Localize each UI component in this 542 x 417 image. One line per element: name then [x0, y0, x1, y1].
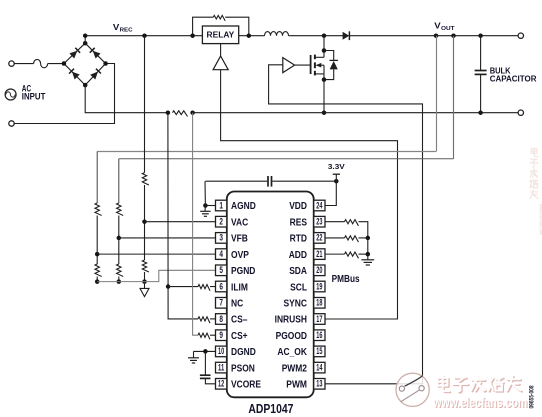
- svg-text:AC_OK: AC_OK: [277, 347, 307, 358]
- wire RES pin 23: [325, 221, 345, 223]
- capacitor C1 decoupling: [205, 176, 336, 187]
- svg-text:PSON: PSON: [231, 363, 255, 374]
- pin 24 VDD: [289, 200, 325, 212]
- svg-text:NC: NC: [231, 298, 244, 309]
- svg-text:PGND: PGND: [231, 266, 255, 277]
- pin 4 OVP: [216, 249, 250, 261]
- pin 13 PWM: [286, 379, 325, 391]
- svg-text:VDD: VDD: [289, 201, 307, 212]
- resistor R10 RES: [345, 220, 359, 226]
- wire OVP to pin 4: [97, 253, 215, 255]
- terminal VOUT-: [518, 110, 523, 115]
- wire OVP divider mid: [96, 216, 98, 265]
- node OVP pin tap: [95, 252, 100, 257]
- pin 1 AGND: [216, 200, 256, 212]
- svg-text:2: 2: [219, 217, 223, 227]
- wire ADD pin 21: [325, 253, 345, 255]
- pin 11 PSON: [216, 362, 255, 374]
- wire VFB divider mid: [118, 216, 120, 265]
- pin 17 INRUSH: [275, 314, 325, 326]
- resistor R1 VAC upper: [142, 173, 149, 185]
- svg-text:3.3V: 3.3V: [328, 162, 345, 171]
- node VOUT VFB tap: [451, 33, 456, 38]
- wire VFB divider bottom: [118, 277, 120, 282]
- svg-text:ADP1047: ADP1047: [248, 402, 293, 416]
- svg-text:INPUT: INPUT: [22, 92, 46, 102]
- buffer U3 gate driver: [283, 58, 295, 73]
- watermark text dianzifashaoyou: [437, 376, 521, 393]
- svg-text:4: 4: [219, 249, 223, 259]
- wire ADD to node: [359, 253, 368, 255]
- svg-text:16: 16: [316, 330, 322, 340]
- resistor R8 CS-: [198, 317, 210, 323]
- ground DGND: [188, 351, 199, 363]
- node DGND junction: [203, 349, 208, 354]
- wire CS+ sense line: [193, 113, 198, 336]
- wire PGND pin 5 path: [97, 270, 215, 281]
- terminal VOUT+: [518, 33, 523, 38]
- capacitor C2 VCORE: [200, 351, 216, 383]
- node ILIM tap: [166, 284, 171, 289]
- node VAC divider tap: [142, 33, 147, 38]
- svg-text:VFB: VFB: [231, 234, 248, 245]
- pin 9 CS+: [216, 330, 248, 342]
- svg-text:7: 7: [219, 298, 223, 308]
- wire return rail: [193, 112, 519, 114]
- resistor R4 OVP lower: [95, 264, 102, 276]
- node drain junction: [322, 48, 327, 53]
- wire OVP divider bottom: [96, 277, 98, 282]
- svg-text:SYNC: SYNC: [284, 298, 308, 309]
- svg-text:11: 11: [218, 362, 224, 372]
- svg-text:PWM2: PWM2: [282, 363, 308, 374]
- wire AC bottom to bridge: [14, 64, 115, 124]
- resistor R9 CS+: [198, 333, 210, 339]
- pin 20 SDA: [289, 265, 325, 277]
- svg-text:DGND: DGND: [231, 347, 256, 358]
- node bridge left: [62, 61, 67, 66]
- wire drain up: [323, 36, 325, 51]
- resistor R_bypass relay: [213, 15, 225, 20]
- node VREC tap: [83, 33, 88, 38]
- node AGND junction: [203, 203, 208, 208]
- pin 22 RTD: [290, 233, 325, 245]
- svg-text:3: 3: [219, 233, 223, 243]
- wire RES corner: [359, 222, 368, 260]
- svg-text:INRUSH: INRUSH: [275, 315, 307, 326]
- node MOSFET drain tap: [322, 33, 327, 38]
- pin 2 VAC: [216, 216, 249, 228]
- ground AGND: [200, 206, 210, 217]
- label VOUT: [434, 21, 455, 32]
- pin 5 PGND: [216, 265, 256, 277]
- transistor Q1 MOSFET: [311, 51, 324, 80]
- svg-text:22: 22: [316, 233, 322, 243]
- svg-text:10: 10: [218, 346, 224, 356]
- wire AC top to fuse: [14, 63, 34, 65]
- svg-text:VAC: VAC: [231, 217, 249, 228]
- node source junction: [322, 77, 327, 82]
- buffer U2 relay driver: [213, 56, 228, 70]
- pin 6 ILIM: [216, 281, 248, 293]
- node bridge top: [83, 41, 88, 46]
- label 3.3V: [328, 162, 345, 171]
- wire VFB to pin 3: [119, 237, 216, 239]
- wire VAC divider middle: [144, 185, 146, 260]
- wire RTD pin 22: [325, 237, 345, 239]
- svg-text:20: 20: [316, 265, 322, 275]
- terminal line input top: [9, 61, 14, 66]
- label VREC: [113, 23, 133, 34]
- wire VFB feedback left drop: [118, 159, 120, 203]
- ground ADD resistors: [361, 260, 374, 265]
- svg-text:12: 12: [218, 379, 224, 389]
- svg-text:PGOOD: PGOOD: [276, 331, 307, 342]
- wire relay box to driver: [220, 44, 222, 57]
- fuse F1: [34, 59, 48, 67]
- svg-text:PWM: PWM: [286, 380, 307, 391]
- diode D2 bridge top-right: [90, 48, 101, 59]
- wire 3.3V to VDD: [325, 174, 340, 205]
- watermark logo circle: [396, 373, 429, 406]
- resistor R_sense current sense: [173, 111, 188, 117]
- svg-text:OVP: OVP: [231, 250, 249, 261]
- node VFB divider foot: [117, 279, 122, 284]
- wire relay bypass left: [193, 17, 214, 36]
- svg-text:OUT: OUT: [441, 26, 455, 32]
- label AC INPUT: [22, 84, 46, 102]
- wire VAC to pin 2: [145, 221, 216, 223]
- wire CS- sense line: [168, 113, 198, 319]
- svg-text:CS+: CS+: [231, 331, 248, 342]
- relay K1 box: [202, 26, 238, 44]
- capacitor C_bulk: [475, 36, 487, 113]
- node VFB pin tap: [117, 236, 122, 241]
- wire bridge bottom to sense: [85, 85, 168, 113]
- diode D3 bridge bottom-left: [69, 69, 80, 80]
- wire VFB feedback horizontal: [119, 158, 454, 160]
- pin 19 SCL: [290, 281, 325, 293]
- node ADD junction: [366, 252, 371, 257]
- svg-text:www.elecfans.com: www.elecfans.com: [433, 395, 528, 410]
- wire VAC divider upper: [144, 36, 146, 173]
- wire fuse to bridge: [48, 63, 64, 65]
- svg-text:ILIM: ILIM: [231, 282, 248, 293]
- watermark url: [433, 395, 529, 411]
- wire OVP feedback vertical: [436, 36, 438, 152]
- label ADP1047: [248, 402, 293, 416]
- diode D5 output: [343, 31, 350, 40]
- node sense left: [166, 110, 171, 115]
- svg-text:1: 1: [219, 200, 223, 210]
- pin 18 SYNC: [284, 298, 326, 310]
- svg-text:13: 13: [316, 379, 322, 389]
- node bridge right: [103, 61, 108, 66]
- wire CS- to pin 8: [210, 318, 216, 320]
- pin 23 RES: [290, 216, 325, 228]
- pin 12 VCORE: [216, 379, 262, 391]
- pin 7 NC: [216, 298, 244, 310]
- pin 8 CS–: [216, 314, 248, 326]
- svg-text:6: 6: [219, 281, 223, 291]
- diode D4 bridge bottom-right: [90, 69, 101, 80]
- svg-text:15: 15: [316, 346, 322, 356]
- node VAC pin tap: [142, 219, 147, 224]
- svg-text:17: 17: [316, 314, 322, 324]
- wire AGND up to cap: [204, 181, 206, 205]
- wire CS+ to pin 9: [210, 334, 216, 336]
- svg-text:5: 5: [219, 265, 223, 275]
- svg-text:PMBus: PMBus: [332, 273, 360, 285]
- svg-text:24: 24: [316, 200, 322, 210]
- wire gate driver output: [295, 64, 311, 66]
- resistor R11 RTD: [345, 236, 359, 242]
- node source on return rail: [322, 110, 327, 115]
- bridge rectifier BR1 diamond wires: [64, 43, 106, 85]
- wire VFB feedback vertical: [453, 36, 455, 159]
- wire ILIM to pin 6: [210, 286, 216, 288]
- pin 21 ADD: [289, 249, 325, 261]
- wire diode to VOUT rail: [349, 35, 518, 37]
- wire VAC divider bottom: [144, 272, 146, 282]
- svg-text:23: 23: [316, 217, 322, 227]
- svg-text:21: 21: [316, 249, 322, 259]
- wire top rail VREC: [85, 35, 264, 37]
- label figure number 09655-008: [529, 385, 536, 408]
- svg-text:CS–: CS–: [231, 315, 248, 326]
- node PGND rail at divider: [142, 279, 147, 284]
- wire bridge top stub: [84, 36, 86, 44]
- wire AGND pin 1: [205, 205, 215, 207]
- node VOUT OVP tap: [434, 33, 439, 38]
- pin 10 DGND: [216, 346, 256, 358]
- svg-text:19: 19: [316, 281, 322, 291]
- resistor R3 OVP upper: [95, 203, 102, 215]
- node bulk cap bottom: [478, 110, 483, 115]
- svg-text:8: 8: [219, 314, 223, 324]
- diode D6 MOSFET body: [324, 51, 338, 80]
- pin 16 PGOOD: [276, 330, 325, 342]
- terminal line input bottom: [9, 121, 14, 126]
- label BULK CAPACITOR: [490, 66, 537, 83]
- wire OVP feedback left drop: [96, 152, 98, 204]
- resistor R5 VFB upper: [117, 203, 124, 215]
- wire OVP feedback horizontal: [97, 151, 436, 153]
- svg-text:REC: REC: [120, 28, 133, 34]
- node OVP divider foot: [95, 279, 100, 284]
- node sense right: [190, 110, 195, 115]
- wire inductor to diode: [289, 35, 344, 37]
- pin 15 AC_OK: [277, 346, 325, 358]
- svg-text:CAPACITOR: CAPACITOR: [490, 74, 537, 83]
- wire source down: [323, 80, 325, 113]
- svg-text:18: 18: [316, 298, 322, 308]
- op-amp U1 ADP1047 body: [227, 192, 314, 398]
- wire PWM to gate driver: [269, 65, 423, 384]
- svg-text:AGND: AGND: [231, 201, 256, 212]
- node bridge bottom: [83, 83, 88, 88]
- watermark vertical right edge: [530, 148, 542, 235]
- svg-text:09655-008: 09655-008: [529, 385, 536, 408]
- node relay left: [190, 33, 195, 38]
- node relay right: [247, 33, 252, 38]
- svg-text:ADD: ADD: [289, 250, 307, 261]
- svg-text:SCL: SCL: [290, 282, 307, 293]
- svg-text:SDA: SDA: [289, 266, 307, 277]
- svg-text:www.elecfans.com: www.elecfans.com: [538, 203, 542, 235]
- pin 3 VFB: [216, 233, 248, 245]
- wire RTD to node: [359, 237, 368, 239]
- resistor R12 ADD: [345, 252, 359, 258]
- svg-text:RTD: RTD: [290, 234, 307, 245]
- ground earth triangle: [140, 282, 149, 297]
- svg-text:VCORE: VCORE: [231, 380, 261, 391]
- resistor R6 VFB lower: [117, 264, 124, 276]
- wire ILIM branch: [168, 286, 198, 288]
- node 3.3V junction: [334, 179, 339, 184]
- label PMBus: [332, 273, 360, 285]
- node VOUT cap tap: [478, 33, 483, 38]
- resistor R2 VAC lower: [142, 260, 149, 272]
- pin 14 PWM2: [282, 362, 325, 374]
- inductor L1: [265, 32, 289, 36]
- wire DGND pin 10: [194, 350, 216, 352]
- node RTD junction: [366, 236, 371, 241]
- diode D1 bridge top-left: [69, 48, 80, 59]
- svg-text:RES: RES: [290, 217, 307, 228]
- resistor R7 ILIM: [198, 285, 210, 291]
- AC source symbol: [5, 89, 16, 100]
- svg-text:9: 9: [219, 330, 223, 340]
- wire relay driver to INRUSH: [221, 70, 398, 319]
- svg-text:RELAY: RELAY: [207, 30, 235, 39]
- wire relay bypass right: [225, 17, 249, 36]
- svg-text:14: 14: [316, 362, 322, 372]
